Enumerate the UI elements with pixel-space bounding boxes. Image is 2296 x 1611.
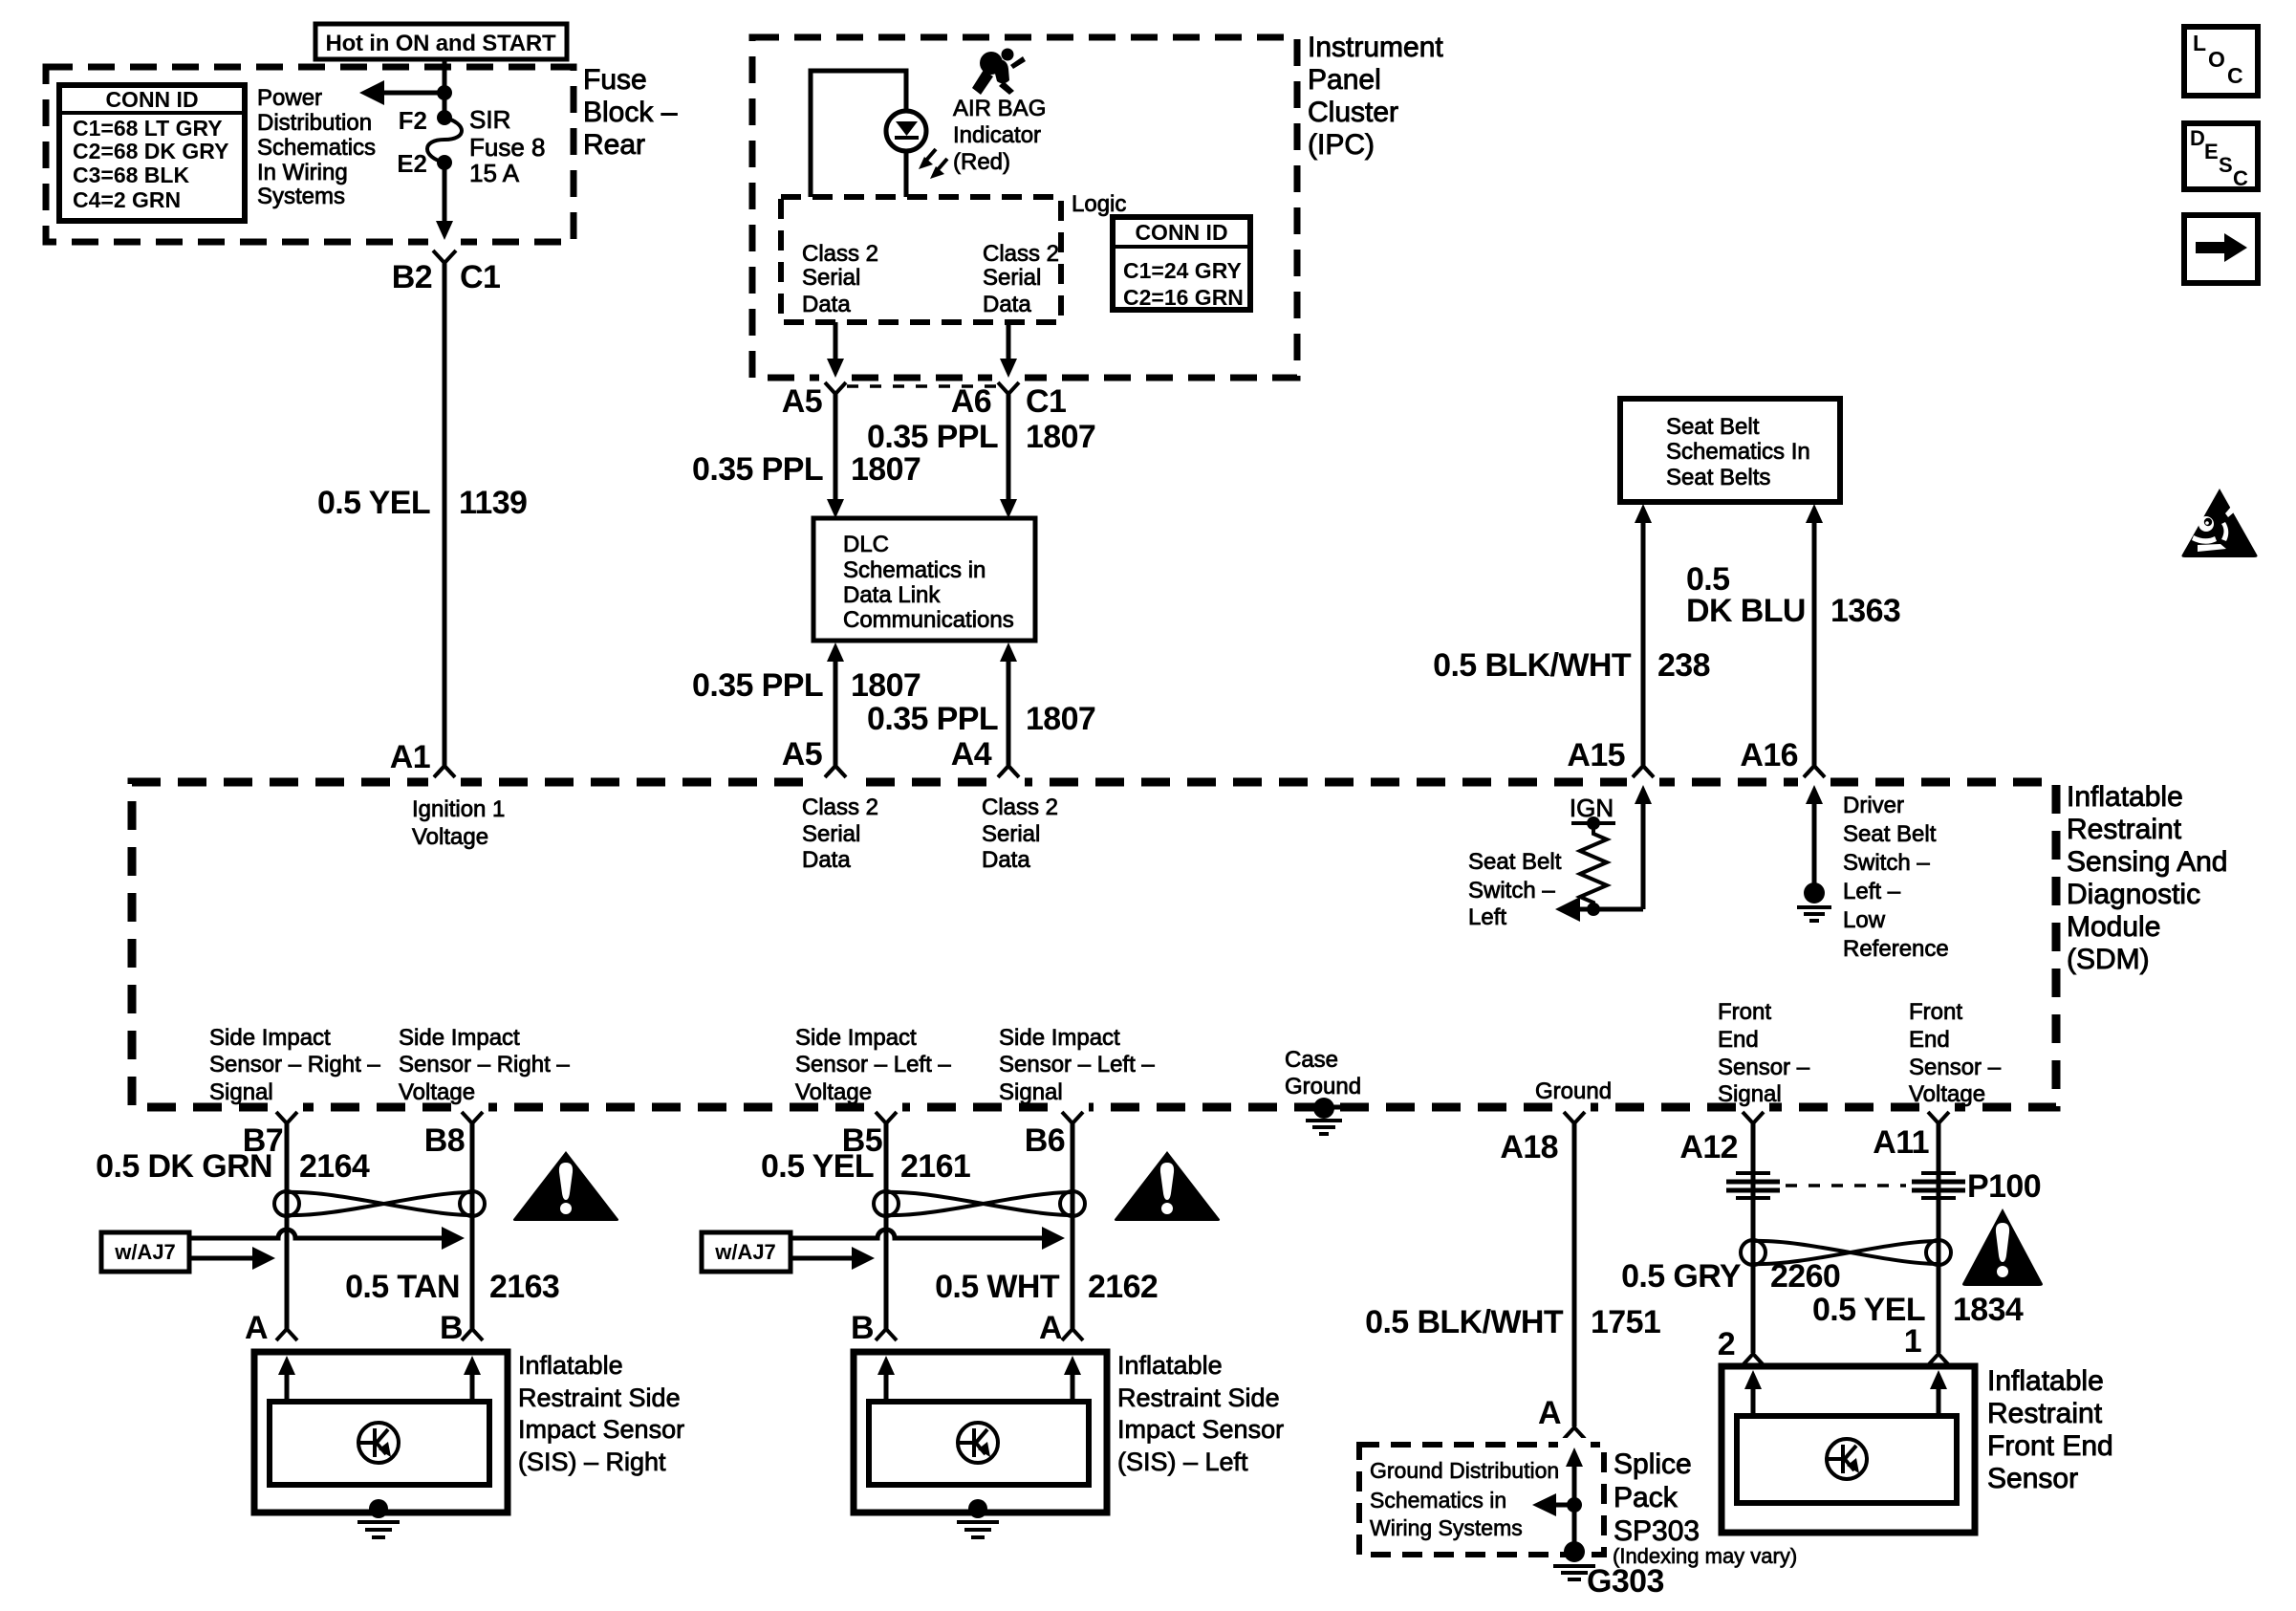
svg-text:Sensor – Left –: Sensor – Left – xyxy=(795,1052,951,1078)
svg-text:0.5 BLK/WHT: 0.5 BLK/WHT xyxy=(1365,1304,1564,1340)
Side Impact Sensor - Right - Signal label xyxy=(209,1025,380,1105)
svg-text:0.5 GRY: 0.5 GRY xyxy=(1621,1258,1742,1295)
svg-text:Impact Sensor: Impact Sensor xyxy=(1117,1415,1284,1444)
svg-text:(SDM): (SDM) xyxy=(2067,944,2150,975)
svg-text:Left: Left xyxy=(1468,904,1506,930)
Instrument Panel Cluster (IPC) dashed box xyxy=(752,37,1297,378)
svg-text:(Red): (Red) xyxy=(953,149,1010,175)
in-line connector P100 on A12 xyxy=(1726,1173,1780,1198)
svg-text:2162: 2162 xyxy=(1088,1269,1158,1305)
svg-text:Class 2: Class 2 xyxy=(802,241,878,267)
svg-text:Driver: Driver xyxy=(1843,793,1904,818)
svg-text:DLC: DLC xyxy=(843,532,889,557)
warning triangle (front end sensor) xyxy=(1962,1208,2043,1286)
svg-text:Rear: Rear xyxy=(583,129,645,161)
connector pin B5 below SDM xyxy=(842,1112,897,1159)
splice pack internal arrow from edge xyxy=(1566,1448,1583,1552)
Case Ground label xyxy=(1285,1047,1361,1099)
IPC label xyxy=(1308,32,1443,161)
Inflatable Restraint Side Impact Sensor (SIS) - Left box xyxy=(854,1352,1107,1513)
svg-text:Logic: Logic xyxy=(1072,191,1126,217)
DESC icon box xyxy=(2184,123,2258,190)
CONN ID table (fuse block) xyxy=(59,85,245,221)
svg-text:A: A xyxy=(245,1310,268,1346)
svg-text:Sensor –: Sensor – xyxy=(1718,1055,1810,1080)
note: power distribution schematics xyxy=(257,85,376,209)
svg-text:Front: Front xyxy=(1718,999,1771,1025)
SIS left sensing element xyxy=(958,1423,998,1463)
case ground symbol on SDM edge xyxy=(1301,1098,1347,1134)
seat belt switch resistor (IGN pull-up) xyxy=(1571,816,1615,916)
redraw top pin carets xyxy=(434,766,1825,777)
svg-text:Inflatable: Inflatable xyxy=(1117,1351,1223,1380)
svg-text:S: S xyxy=(2219,153,2233,177)
Ground Distribution Schematics in Wiring Systems label xyxy=(1370,1458,1559,1540)
Inflatable Restraint Front End Sensor box xyxy=(1722,1366,1975,1533)
svg-text:DK BLU: DK BLU xyxy=(1686,593,1806,629)
svg-text:Front End: Front End xyxy=(1987,1430,2113,1462)
svg-text:In Wiring: In Wiring xyxy=(257,160,348,185)
svg-text:Indicator: Indicator xyxy=(953,122,1041,148)
P100 link dashed + label xyxy=(1786,1168,2041,1205)
ground G303 xyxy=(1553,1541,1664,1600)
svg-text:w/AJ7: w/AJ7 xyxy=(714,1240,776,1264)
svg-text:Class 2: Class 2 xyxy=(982,795,1058,820)
svg-text:Restraint: Restraint xyxy=(2067,814,2182,845)
Side Impact Sensor - Right - Voltage label xyxy=(399,1025,570,1105)
svg-text:Power: Power xyxy=(257,85,322,111)
svg-text:Sensing And: Sensing And xyxy=(2067,846,2227,878)
svg-text:Class 2: Class 2 xyxy=(983,241,1059,267)
connector pin B8 below SDM xyxy=(424,1112,483,1159)
svg-text:Wiring Systems: Wiring Systems xyxy=(1370,1515,1523,1540)
svg-text:E2: E2 xyxy=(397,149,427,178)
svg-text:Systems: Systems xyxy=(257,184,345,209)
connector A6 / C1 (IPC) xyxy=(998,382,1019,394)
svg-text:Voltage: Voltage xyxy=(795,1079,872,1105)
arrow to ground distribution (left) xyxy=(1532,1493,1582,1516)
svg-text:Side Impact: Side Impact xyxy=(209,1025,331,1051)
svg-text:CONN ID: CONN ID xyxy=(1135,220,1227,245)
SDM pin A15 internal arrow xyxy=(1635,785,1652,909)
svg-text:C2=68 DK GRY: C2=68 DK GRY xyxy=(73,139,228,163)
arrow to power distribution (left) xyxy=(359,80,444,105)
svg-text:Side Impact: Side Impact xyxy=(399,1025,520,1051)
svg-text:Ground Distribution: Ground Distribution xyxy=(1370,1458,1559,1483)
wire 2162 (0.5 WHT) B6 xyxy=(935,1123,1158,1329)
svg-text:A: A xyxy=(1538,1395,1561,1431)
SDM label xyxy=(2067,781,2227,975)
SDM dashed box xyxy=(132,782,2056,1107)
wire 238 (0.5 BLK/WHT) A15 to seat belt box xyxy=(1433,504,1710,766)
connector link dashed xyxy=(847,384,997,388)
svg-text:A5: A5 xyxy=(782,383,822,420)
svg-text:C3=68 BLK: C3=68 BLK xyxy=(73,163,189,187)
svg-text:0.35 PPL: 0.35 PPL xyxy=(867,419,998,455)
Side Impact Sensor - Left - Signal label xyxy=(999,1025,1155,1105)
wire 1834 (0.5 YEL) A11 xyxy=(1812,1123,2024,1353)
svg-text:0.5 BLK/WHT: 0.5 BLK/WHT xyxy=(1433,647,1632,684)
fuse F8 (SIR Fuse 8 15 A) between F2 and E2 xyxy=(397,105,545,187)
svg-text:Seat Belt: Seat Belt xyxy=(1468,849,1562,875)
svg-text:Sensor – Right –: Sensor – Right – xyxy=(399,1052,570,1078)
Seat Belt Switch - Left label xyxy=(1468,849,1562,930)
svg-text:Impact Sensor: Impact Sensor xyxy=(518,1415,684,1444)
svg-text:A4: A4 xyxy=(951,736,992,773)
svg-text:1834: 1834 xyxy=(1953,1292,2024,1328)
connector pin A5 at SDM xyxy=(782,736,846,777)
power feed box "Hot in ON and START" xyxy=(315,24,567,59)
svg-text:Restraint Side: Restraint Side xyxy=(518,1383,681,1412)
svg-text:2: 2 xyxy=(1718,1326,1735,1362)
LOC icon box xyxy=(2184,27,2258,96)
svg-text:A11: A11 xyxy=(1873,1124,1929,1161)
svg-text:Schematics in: Schematics in xyxy=(843,557,986,583)
svg-text:Splice: Splice xyxy=(1614,1448,1692,1480)
svg-text:0.35 PPL: 0.35 PPL xyxy=(867,701,998,737)
svg-text:Reference: Reference xyxy=(1843,936,1949,962)
svg-text:Left –: Left – xyxy=(1843,879,1901,904)
SIS left case ground xyxy=(957,1499,999,1537)
svg-text:1807: 1807 xyxy=(1026,701,1095,737)
svg-text:Ignition 1: Ignition 1 xyxy=(412,796,505,822)
svg-text:Schematics in: Schematics in xyxy=(1370,1488,1506,1513)
wire 2260 (0.5 GRY) A12 xyxy=(1621,1123,1840,1353)
svg-text:238: 238 xyxy=(1657,647,1710,684)
svg-text:End: End xyxy=(1718,1027,1759,1053)
twisted pair B5/B6 xyxy=(874,1191,1085,1216)
svg-text:Data: Data xyxy=(983,292,1031,317)
connector pin A at SIS right xyxy=(245,1310,297,1346)
wire 1363 (0.5 DK BLU) A16 to seat belt box xyxy=(1686,504,1900,766)
connector pin A15 at SDM xyxy=(1567,737,1654,777)
w/AJ7 box (right SIS) xyxy=(101,1232,189,1272)
Driver Seat Belt Switch - Left - Low Reference label xyxy=(1843,793,1949,962)
SDM pin A16 internal arrow xyxy=(1806,785,1823,886)
svg-text:15 A: 15 A xyxy=(469,159,520,187)
CONN ID table (IPC) xyxy=(1113,217,1250,310)
connector gaps in SDM border xyxy=(271,775,1955,1114)
svg-text:Seat Belts: Seat Belts xyxy=(1666,465,1770,490)
svg-text:A1: A1 xyxy=(390,739,430,775)
pin 1 label xyxy=(1904,1323,1949,1365)
svg-text:(IPC): (IPC) xyxy=(1308,129,1375,161)
svg-text:Data Link: Data Link xyxy=(843,582,941,608)
connector A5 (IPC) xyxy=(825,382,846,394)
svg-text:Ground: Ground xyxy=(1535,1078,1612,1104)
junction node xyxy=(437,85,452,100)
svg-text:Side Impact: Side Impact xyxy=(795,1025,917,1051)
svg-text:Front: Front xyxy=(1909,999,1962,1025)
Fuse Block - Rear dashed box xyxy=(46,67,574,242)
svg-text:Instrument: Instrument xyxy=(1308,32,1443,63)
Splice Pack SP303 dashed box xyxy=(1359,1445,1604,1555)
svg-text:Fuse: Fuse xyxy=(583,64,647,96)
svg-text:1807: 1807 xyxy=(851,451,921,488)
warning triangle (SIS right) xyxy=(513,1151,618,1221)
svg-text:AIR BAG: AIR BAG xyxy=(953,96,1046,121)
svg-text:Case: Case xyxy=(1285,1047,1338,1073)
svg-text:1807: 1807 xyxy=(1026,419,1095,455)
svg-text:A12: A12 xyxy=(1679,1129,1738,1165)
svg-text:B: B xyxy=(851,1310,874,1346)
SIS right case ground xyxy=(357,1499,400,1537)
svg-text:Serial: Serial xyxy=(802,821,860,847)
svg-text:Switch –: Switch – xyxy=(1843,850,1930,876)
svg-text:C1=24 GRY: C1=24 GRY xyxy=(1123,258,1242,283)
w/AJ7 arrow to B7 xyxy=(189,1247,275,1270)
connector pin A1 at SDM xyxy=(390,739,455,777)
svg-text:0.35 PPL: 0.35 PPL xyxy=(692,451,823,488)
svg-text:Communications: Communications xyxy=(843,607,1014,633)
svg-text:Data: Data xyxy=(982,847,1030,873)
svg-text:G303: G303 xyxy=(1587,1563,1664,1600)
svg-text:C1: C1 xyxy=(1026,383,1066,420)
Class 2 Serial Data (IPC left) xyxy=(802,241,878,317)
airbag caution triangle icon xyxy=(2181,489,2257,557)
svg-text:Cluster: Cluster xyxy=(1308,97,1398,128)
wire 2163 (0.5 TAN) B8 xyxy=(345,1123,559,1329)
w/AJ7 box (left SIS) xyxy=(702,1232,791,1272)
connector pin A18 below SDM xyxy=(1500,1112,1585,1165)
Front End Sensor - Signal label xyxy=(1718,999,1810,1107)
wire 1807 (0.35 PPL) SDM A5 to DLC xyxy=(692,642,921,766)
wire 1139 (0.5 YEL) from fuse block to SDM A1 xyxy=(317,263,527,766)
svg-text:Restraint Side: Restraint Side xyxy=(1117,1383,1280,1412)
svg-text:A15: A15 xyxy=(1567,737,1625,773)
Fuse Block - Rear label xyxy=(583,64,678,161)
svg-text:Serial: Serial xyxy=(982,821,1040,847)
svg-text:C4=2 GRN: C4=2 GRN xyxy=(73,187,181,212)
svg-text:w/AJ7: w/AJ7 xyxy=(114,1240,176,1264)
svg-text:1751: 1751 xyxy=(1591,1304,1660,1340)
svg-text:(SIS) – Right: (SIS) – Right xyxy=(518,1448,666,1476)
forward arrow icon box xyxy=(2184,215,2258,283)
w/AJ7 arrow to B8 with hop over B7 xyxy=(189,1227,465,1250)
wire 2164 (0.5 DK GRN) B7 xyxy=(96,1123,370,1329)
svg-text:A6: A6 xyxy=(951,383,991,420)
svg-text:B: B xyxy=(440,1310,463,1346)
svg-text:Seat Belt: Seat Belt xyxy=(1843,821,1937,847)
connector pin B at SIS right xyxy=(440,1310,483,1346)
svg-text:Signal: Signal xyxy=(999,1079,1063,1105)
svg-text:2161: 2161 xyxy=(900,1148,970,1185)
svg-text:Sensor – Left –: Sensor – Left – xyxy=(999,1052,1155,1078)
SIS left label xyxy=(1117,1351,1284,1476)
svg-text:Schematics: Schematics xyxy=(257,135,376,161)
svg-text:Pack: Pack xyxy=(1614,1482,1679,1513)
svg-text:A: A xyxy=(1039,1310,1062,1346)
Ignition 1 Voltage label xyxy=(412,796,505,850)
wire: fuse output to connector B2 xyxy=(436,163,453,240)
twisted pair A12/A11 xyxy=(1741,1240,1951,1265)
svg-text:SP303: SP303 xyxy=(1614,1515,1700,1547)
wire: indicator branch (top) xyxy=(811,71,906,197)
svg-text:Schematics In: Schematics In xyxy=(1666,439,1810,465)
svg-text:O: O xyxy=(2208,47,2225,72)
svg-text:C: C xyxy=(2233,166,2248,190)
svg-text:(SIS) – Left: (SIS) – Left xyxy=(1117,1448,1248,1476)
wire: logic to pin A6 xyxy=(1000,322,1017,378)
svg-text:Sensor – Right –: Sensor – Right – xyxy=(209,1052,380,1078)
svg-text:C1=68 LT GRY: C1=68 LT GRY xyxy=(73,116,223,141)
connector pin B at SIS left xyxy=(851,1310,897,1346)
front end sensor label xyxy=(1987,1365,2113,1494)
driver seat belt switch low reference: ground xyxy=(1797,882,1831,921)
svg-text:Class 2: Class 2 xyxy=(802,795,878,820)
svg-text:SIR: SIR xyxy=(469,105,510,134)
SIS right sensing element xyxy=(358,1423,399,1463)
air bag icon xyxy=(972,49,1026,96)
connector pin B6 below SDM xyxy=(1025,1112,1083,1159)
svg-text:Inflatable: Inflatable xyxy=(518,1351,623,1380)
svg-text:A5: A5 xyxy=(782,736,822,773)
in-line connector P100 on A11 xyxy=(1912,1173,1965,1198)
svg-text:D: D xyxy=(2190,126,2205,150)
svg-text:Voltage: Voltage xyxy=(399,1079,475,1105)
wire 1807 (0.35 PPL) IPC A6 to DLC xyxy=(867,394,1095,518)
Front End Sensor - Voltage label xyxy=(1909,999,2002,1107)
svg-text:L: L xyxy=(2193,31,2206,55)
Class 2 Serial Data (IPC right) xyxy=(983,241,1059,317)
svg-text:Serial: Serial xyxy=(983,265,1041,291)
svg-text:P100: P100 xyxy=(1967,1168,2041,1205)
svg-text:1139: 1139 xyxy=(459,485,527,521)
svg-text:0.5 WHT: 0.5 WHT xyxy=(935,1269,1060,1305)
svg-text:0.5 YEL: 0.5 YEL xyxy=(761,1148,874,1185)
warning triangle (SIS left) xyxy=(1115,1151,1220,1221)
svg-text:End: End xyxy=(1909,1027,1950,1053)
pin 2 label xyxy=(1718,1326,1764,1365)
svg-text:Data: Data xyxy=(802,292,851,317)
w/AJ7 arrow to B5 xyxy=(791,1247,875,1270)
svg-text:2164: 2164 xyxy=(299,1148,370,1185)
connector B2 / C1 xyxy=(392,250,501,295)
connector pin A at splice pack xyxy=(1538,1395,1585,1439)
svg-text:Side Impact: Side Impact xyxy=(999,1025,1120,1051)
svg-text:Voltage: Voltage xyxy=(412,824,488,850)
svg-text:0.5 YEL: 0.5 YEL xyxy=(317,485,430,521)
wire: logic to pin A5 xyxy=(827,322,844,378)
svg-text:B2: B2 xyxy=(392,259,432,295)
svg-text:F2: F2 xyxy=(399,106,427,135)
front end sensing element xyxy=(1827,1439,1867,1479)
connector pin A16 at SDM xyxy=(1740,737,1825,777)
svg-text:2163: 2163 xyxy=(489,1269,559,1305)
wire 1807 (0.35 PPL) SDM A4 to DLC xyxy=(867,642,1095,766)
svg-text:Module: Module xyxy=(2067,911,2160,943)
svg-text:Sensor –: Sensor – xyxy=(1909,1055,2002,1080)
svg-text:Restraint: Restraint xyxy=(1987,1398,2103,1429)
svg-text:Hot in ON and START: Hot in ON and START xyxy=(325,31,556,56)
svg-text:Distribution: Distribution xyxy=(257,110,372,136)
svg-text:0.5 DK GRN: 0.5 DK GRN xyxy=(96,1148,272,1185)
Seat Belt Schematics box xyxy=(1620,399,1840,502)
Splice Pack SP303 label xyxy=(1613,1448,1797,1568)
SIS right label xyxy=(518,1351,684,1476)
svg-text:A16: A16 xyxy=(1740,737,1798,773)
svg-text:B8: B8 xyxy=(424,1122,465,1159)
svg-text:Signal: Signal xyxy=(1718,1081,1782,1107)
Class 2 Serial Data (SDM A4) xyxy=(982,795,1058,873)
svg-text:1363: 1363 xyxy=(1830,593,1900,629)
Inflatable Restraint Side Impact Sensor (SIS) - Right box xyxy=(254,1352,508,1513)
connector pin B7 below SDM xyxy=(243,1112,297,1159)
svg-text:Serial: Serial xyxy=(802,265,860,291)
Class 2 Serial Data (SDM A5) xyxy=(802,795,878,873)
svg-text:Signal: Signal xyxy=(209,1079,273,1105)
svg-text:0.35 PPL: 0.35 PPL xyxy=(692,667,823,704)
svg-text:Diagnostic: Diagnostic xyxy=(2067,879,2200,910)
svg-text:Inflatable: Inflatable xyxy=(1987,1365,2104,1397)
pin labels A5 A6 C1 xyxy=(782,383,1067,420)
wire: hot feed from box into fuse block xyxy=(443,59,447,118)
svg-text:1: 1 xyxy=(1904,1323,1921,1360)
w/AJ7 arrow to B6 with hop over B5 xyxy=(791,1227,1065,1250)
AIR BAG Indicator (Red) label xyxy=(953,96,1046,175)
svg-text:C2=16 GRN: C2=16 GRN xyxy=(1123,285,1244,310)
Logic dashed box xyxy=(781,197,1061,322)
svg-text:Fuse 8: Fuse 8 xyxy=(469,133,546,162)
svg-text:Data: Data xyxy=(802,847,851,873)
svg-text:Block –: Block – xyxy=(583,97,678,128)
svg-text:1807: 1807 xyxy=(851,667,921,704)
svg-text:Sensor: Sensor xyxy=(1987,1463,2078,1494)
svg-text:C: C xyxy=(2227,63,2243,88)
twisted pair B7/B8 xyxy=(274,1191,485,1216)
svg-text:0.5 TAN: 0.5 TAN xyxy=(345,1269,460,1305)
svg-text:A18: A18 xyxy=(1500,1129,1558,1165)
connector pin A at SIS left xyxy=(1039,1310,1083,1346)
svg-text:CONN ID: CONN ID xyxy=(105,87,198,112)
wire 1807 (0.35 PPL) IPC A5 to DLC xyxy=(692,394,921,518)
Side Impact Sensor - Left - Voltage label xyxy=(795,1025,951,1105)
svg-text:Seat Belt: Seat Belt xyxy=(1666,414,1760,440)
svg-text:Low: Low xyxy=(1843,907,1886,933)
svg-text:Panel: Panel xyxy=(1308,64,1381,96)
connector pin A4 at SDM xyxy=(951,736,1019,777)
svg-text:E: E xyxy=(2204,140,2219,163)
wire 1751 (0.5 BLK/WHT) A18 to splice pack xyxy=(1365,1123,1660,1426)
AIR BAG indicator LED xyxy=(886,111,947,197)
connector pin A12 below SDM xyxy=(1679,1112,1764,1165)
svg-text:Switch –: Switch – xyxy=(1468,878,1555,903)
connector pin A11 below SDM xyxy=(1873,1112,1949,1161)
seat belt switch output line with left arrow xyxy=(1555,897,1643,922)
svg-text:Ground: Ground xyxy=(1285,1074,1361,1099)
svg-text:C1: C1 xyxy=(460,259,500,295)
svg-text:Voltage: Voltage xyxy=(1909,1081,1985,1107)
svg-text:Inflatable: Inflatable xyxy=(2067,781,2183,813)
wire 2161 (0.5 YEL) B5 xyxy=(761,1123,970,1329)
svg-text:B6: B6 xyxy=(1025,1122,1065,1159)
DLC schematics box xyxy=(813,518,1035,641)
